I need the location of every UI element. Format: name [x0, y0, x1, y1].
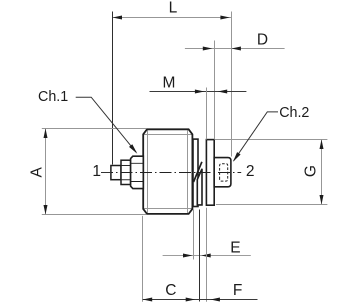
C right arrow	[186, 298, 196, 302]
G bottom arrow	[320, 195, 324, 205]
dimension E (grey): dimension line	[163, 255, 251, 257]
svg-text:E: E	[230, 239, 240, 256]
M left extension line (disc left face)	[206, 88, 208, 140]
svg-text:1: 1	[92, 163, 101, 180]
roller body	[143, 129, 192, 214]
L / D right extension line	[231, 12, 233, 157]
dimension L: dimension line	[113, 17, 232, 19]
hex nut 2	[214, 158, 231, 187]
A bottom arrow	[44, 205, 48, 215]
G dimension line	[321, 140, 323, 205]
D left arrow	[203, 47, 213, 51]
dimension M: dimension line	[150, 91, 247, 93]
A top arrow	[44, 129, 48, 139]
svg-text:2: 2	[246, 163, 255, 180]
roller body inner chamfer lines	[144, 130, 192, 213]
svg-text:Ch.1: Ch.1	[38, 89, 68, 105]
M right arrow	[218, 90, 228, 94]
washer right face extension line (dark)	[199, 210, 201, 302]
centerline	[101, 172, 241, 174]
G top arrow	[320, 140, 324, 150]
spring washer (front half)	[197, 169, 202, 205]
dimension C/F: dimension line	[143, 299, 258, 301]
svg-text:G: G	[303, 165, 320, 177]
C left arrow	[143, 298, 153, 302]
L left arrow	[113, 16, 123, 20]
hex nut 1	[131, 156, 144, 188]
A dimension line	[45, 129, 47, 215]
disc left face extension line (grey, F target)	[206, 208, 208, 302]
spring washer (rear half)	[193, 139, 198, 206]
leader Ch.2	[234, 112, 278, 161]
C left extension line (grey)	[142, 216, 144, 302]
svg-text:Ch.2: Ch.2	[279, 105, 309, 121]
svg-text:L: L	[169, 0, 178, 16]
D left extension line (disc right face)	[214, 41, 216, 140]
E left arrow	[183, 254, 193, 258]
disc / washer plate	[206, 140, 214, 206]
thread root lines	[122, 166, 131, 180]
Ch.2 arrowhead	[233, 152, 241, 162]
L left extension line	[112, 12, 114, 165]
E right arrow	[201, 254, 211, 258]
spring washer split diagonal	[194, 162, 202, 182]
F arrow	[210, 298, 220, 302]
D right arrow	[231, 47, 241, 51]
svg-text:A: A	[28, 166, 45, 177]
svg-text:D: D	[257, 31, 268, 48]
stud tip (pin end, label 1 side)	[111, 166, 121, 180]
leader Ch.1	[76, 97, 137, 152]
dimension A: extension lines	[42, 129, 147, 215]
svg-text:C: C	[165, 282, 176, 299]
svg-text:M: M	[163, 75, 176, 92]
L right arrow	[220, 16, 230, 20]
dimension D: dimension line	[185, 48, 285, 50]
svg-text:F: F	[233, 282, 242, 299]
nut 2 hidden thread (dashed)	[220, 164, 228, 181]
threaded section	[121, 160, 131, 184]
dimension G: extension lines	[215, 140, 328, 205]
Ch.1 arrowhead	[129, 144, 137, 154]
E left extension line (grey)	[193, 210, 195, 260]
M left arrow	[195, 90, 205, 94]
